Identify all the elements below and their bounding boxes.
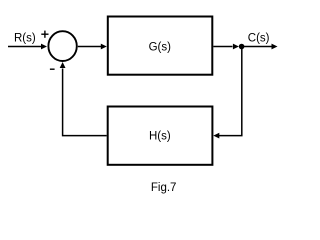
svg-text:Fig.7: Fig.7 bbox=[151, 182, 177, 194]
wire: input arrow R(s) into summing junction bbox=[8, 46, 42, 48]
svg-text:R(s): R(s) bbox=[14, 32, 36, 44]
wire: G(s) output to takeoff node bbox=[213, 46, 232, 48]
svg-text:G(s): G(s) bbox=[149, 41, 172, 53]
svg-text:H(s): H(s) bbox=[149, 130, 171, 142]
wire: summing junction to G(s) block bbox=[78, 46, 102, 48]
svg-text:C(s): C(s) bbox=[248, 32, 270, 44]
plus sign at summing junction bbox=[41, 31, 48, 38]
wire: takeoff node down and left into H(s) input bbox=[219, 47, 242, 136]
wire: H(s) output feedback left and up into summing junction bbox=[63, 69, 107, 136]
wire: node to output arrow C(s) bbox=[242, 46, 272, 48]
node: output takeoff junction dot bbox=[239, 44, 245, 50]
minus sign at summing junction bbox=[50, 68, 55, 70]
summing junction circle bbox=[48, 31, 76, 61]
block G1: forward transfer function G(s) bbox=[108, 17, 213, 75]
block H1: feedback transfer function H(s) bbox=[108, 107, 213, 165]
